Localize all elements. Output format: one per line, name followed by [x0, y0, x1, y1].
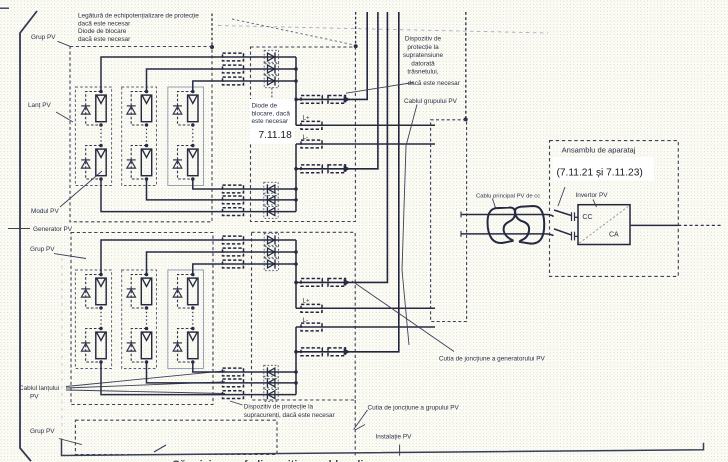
- node bus+ switch group 2: [294, 281, 298, 285]
- blocking diode string 2.2 negative: [264, 376, 278, 389]
- svg-text:Dispozitiv de protecție la: Dispozitiv de protecție la: [244, 404, 314, 411]
- PV module 1.1a with bypass diode: [81, 90, 106, 127]
- array junction box 2 (dashed): [252, 232, 356, 400]
- white patch behind reference: [553, 157, 654, 181]
- series link dotted 1.1: [100, 125, 102, 146]
- PV module 1.2b with bypass diode: [127, 144, 152, 181]
- dc main wire +: [461, 215, 554, 217]
- leader Grup PV second: [54, 254, 86, 259]
- wire string 2.2 positive: [147, 252, 297, 275]
- wire switch-disconnector + group 1: [296, 12, 367, 99]
- PV module 1.3a with bypass diode: [173, 90, 198, 127]
- svg-text:Dispozitiv de: Dispozitiv de: [405, 36, 442, 43]
- node bus- switch group 2: [294, 350, 298, 354]
- svg-text:Legătură de echipotențializare: Legătură de echipotențializare de protec…: [78, 13, 199, 20]
- array junction box 1 (dashed): [251, 47, 356, 222]
- svg-text:Invertor PV: Invertor PV: [576, 192, 609, 199]
- leader surge note: [346, 83, 413, 94]
- PV module 2.3b with bypass diode: [173, 327, 198, 364]
- svg-text:7.11.18: 7.11.18: [259, 130, 293, 141]
- wire switch-disconnector - group 1: [296, 12, 378, 169]
- wire string 1.2 positive: [147, 69, 297, 92]
- blocking diode string 1.1 negative: [264, 205, 278, 218]
- switch terminal bars -: [571, 232, 573, 241]
- wire string 1.1 positive: [101, 57, 296, 92]
- leader Cablul lantului PV prong 1: [66, 371, 225, 387]
- fuse L+ group 1: [301, 121, 322, 129]
- leader Lant PV: [56, 112, 73, 122]
- bonding dashed diagonal to array junction box corner: [232, 19, 352, 45]
- fuse L- group 1: [301, 140, 322, 148]
- leader Cablul grupului PV: [402, 105, 417, 346]
- string box 2.1 (dashed): [75, 270, 111, 369]
- string box 1.3 (solid light): [168, 87, 204, 186]
- blocking diode string 2.2 positive: [264, 245, 278, 258]
- PV module 1.2a with bypass diode: [127, 90, 152, 127]
- wire string 1.1 negative: [101, 179, 296, 212]
- svg-text:Cablul grupului PV: Cablul grupului PV: [404, 98, 458, 105]
- series link dotted 2.1: [100, 308, 102, 329]
- fuse string 2.2 positive: [223, 248, 244, 256]
- leader Cutia generatorului: [352, 281, 454, 352]
- series link dotted 1.3: [192, 125, 194, 146]
- leader Cablul lantului PV prong 3: [66, 390, 225, 394]
- switch blade -: [554, 229, 572, 235]
- PV module 2.3a with bypass diode: [173, 273, 198, 310]
- leader Cutia grupului: [354, 410, 368, 430]
- svg-text:Generator PV: Generator PV: [33, 226, 73, 233]
- positive bus group 2: [295, 240, 297, 308]
- leader hook at box edge: [355, 425, 365, 431]
- stray mark near bottom: [154, 445, 166, 452]
- svg-text:supracurenți, dacă este necesa: supracurenți, dacă este necesar: [244, 412, 336, 419]
- string box 2.3 (solid light): [168, 270, 204, 369]
- fuse string 1.1 positive: [223, 53, 244, 61]
- blocking diode string 2.3 negative: [264, 365, 278, 378]
- dashed tick from diode column to note: [271, 88, 273, 99]
- switch-disconnector fuse + group 1: [301, 96, 350, 104]
- Grup PV box 2 (dashed): [71, 233, 213, 405]
- leader for switches from Ansamblu: [558, 187, 565, 206]
- node bus- switch group 1: [294, 167, 298, 171]
- node bus+ row2 group 1: [294, 67, 298, 71]
- bonding dashed drop to generator junction box corner: [465, 12, 467, 119]
- blocking diode string 1.1 positive: [264, 50, 278, 63]
- svg-text:Cutia de joncțiune a generator: Cutia de joncțiune a generatorului PV: [439, 355, 546, 362]
- fuse string 2.2 negative: [223, 379, 244, 387]
- bottom cropped caption smudge: [172, 459, 402, 462]
- leader Invertor PV: [593, 200, 597, 208]
- fuse L- group 2: [301, 323, 322, 331]
- wire L+ group 2: [296, 307, 435, 309]
- svg-text:Cutia de joncțiune a grupului: Cutia de joncțiune a grupului PV: [368, 404, 460, 411]
- PV module 2.1b with bypass diode: [81, 327, 106, 364]
- series link dotted 2.2: [146, 308, 148, 329]
- svg-text:Modul PV: Modul PV: [31, 208, 59, 215]
- fuse string 1.2 negative: [223, 196, 244, 204]
- svg-text:CC: CC: [582, 214, 592, 221]
- leader Cablul lantului PV prong 2: [66, 382, 225, 388]
- string box 1.1 (dashed): [75, 87, 111, 186]
- wire string 2.1 negative: [101, 362, 296, 395]
- tick Generator PV: [8, 228, 30, 230]
- PV module 2.2b with bypass diode: [127, 327, 152, 364]
- leader Grup PV: [58, 41, 71, 46]
- terminal tick dc -: [460, 231, 462, 237]
- switch-disconnector fuse - group 1: [301, 165, 350, 173]
- svg-text:dacă este necesar: dacă este necesar: [78, 20, 131, 27]
- wire string 2.1 positive: [101, 240, 296, 275]
- positive bus group 1: [295, 57, 297, 125]
- blocking diode string 1.2 positive: [264, 62, 278, 75]
- top-left corner tick: [0, 7, 9, 9]
- switch blade +: [554, 210, 572, 216]
- wire into inverter -: [575, 235, 579, 237]
- PV module 1.3b with bypass diode: [173, 144, 198, 181]
- node bus- row1 group 1: [294, 187, 298, 191]
- generator junction box (dashed): [431, 120, 467, 322]
- blocking diode string 1.2 negative: [264, 193, 278, 206]
- leader cablu principal: [492, 199, 495, 208]
- fuse string 1.3 positive: [223, 77, 244, 85]
- svg-text:protecție la: protecție la: [407, 44, 439, 51]
- installation boundary top (faint dashed): [218, 26, 548, 34]
- svg-text:Grup PV: Grup PV: [31, 34, 56, 41]
- switch-disconnector fuse - group 2: [301, 348, 350, 356]
- fuse string 1.3 negative: [223, 185, 244, 193]
- blocking diode string 2.1 positive: [264, 233, 278, 246]
- PV module 2.2a with bypass diode: [127, 273, 152, 310]
- PV module 1.1b with bypass diode: [81, 144, 106, 181]
- svg-text:Grup PV: Grup PV: [30, 428, 55, 435]
- wire switch-disconnector - group 2: [296, 12, 399, 352]
- junction box 2 right edge extension to bottom: [354, 400, 356, 456]
- svg-text:datorată: datorată: [411, 60, 435, 67]
- node bus+ switch group 1: [294, 98, 298, 102]
- fuse string 1.1 negative: [223, 208, 244, 216]
- svg-text:este necesar: este necesar: [252, 118, 289, 125]
- ac output wire: [630, 224, 678, 226]
- wire string 2.3 negative: [193, 362, 296, 372]
- string box 2.2 (dashed): [122, 270, 157, 369]
- wire L- group 2: [296, 326, 435, 328]
- bonding node on Grup PV box corner: [210, 45, 214, 49]
- fuse string 2.1 negative: [223, 391, 244, 399]
- leader Grup PV bottom: [59, 439, 82, 445]
- wire string 2.3 positive: [193, 264, 296, 275]
- svg-text:trăsnetului,: trăsnetului,: [407, 69, 438, 76]
- svg-text:dacă este necesar: dacă este necesar: [408, 80, 461, 87]
- node bus+ row3 group 1: [294, 79, 298, 83]
- svg-text:(7.11.21 și 7.11.23): (7.11.21 și 7.11.23): [557, 168, 643, 179]
- wire switch-disconnector + group 2: [296, 12, 387, 282]
- svg-text:Cablu principal PV de cc: Cablu principal PV de cc: [476, 194, 540, 200]
- blocking diode string 2.3 positive: [264, 257, 278, 270]
- svg-text:supratensiune: supratensiune: [403, 52, 444, 59]
- left page border: [20, 11, 37, 461]
- bonding node on array junction box corner: [354, 44, 358, 48]
- fuse string 1.2 positive: [223, 65, 244, 73]
- fuse string 2.3 negative: [223, 368, 244, 376]
- negative bus group 2: [295, 327, 297, 395]
- fuse string 2.1 positive: [223, 236, 244, 244]
- bonding dashed drop to array junction box corner: [355, 12, 357, 46]
- bonding node on generator junction box corner: [464, 117, 468, 121]
- svg-text:L-: L-: [303, 317, 309, 324]
- node bus+ row2 group 2: [294, 250, 298, 254]
- wire L- group 1: [296, 143, 435, 145]
- svg-text:Grup PV: Grup PV: [30, 246, 55, 253]
- svg-text:Diode de blocare: Diode de blocare: [78, 28, 127, 35]
- Grup PV box bottom-left empty (dashed): [75, 420, 277, 454]
- svg-text:Ansamblu de aparataj: Ansamblu de aparataj: [562, 146, 636, 155]
- installation boundary left (faint dashed): [61, 258, 63, 438]
- string box 1.2 (dashed): [122, 87, 157, 186]
- blocking diode string 2.1 negative: [264, 388, 278, 401]
- node bus- row2 group 2: [294, 381, 298, 385]
- svg-text:CA: CA: [609, 232, 619, 239]
- node bus- row1 group 2: [294, 370, 298, 374]
- svg-text:L+: L+: [303, 298, 310, 305]
- svg-text:Cablul lanțului: Cablul lanțului: [19, 385, 59, 392]
- leader Modul PV: [60, 171, 102, 207]
- series link dotted 1.2: [146, 125, 148, 146]
- blocking diode string 1.3 positive: [264, 74, 278, 87]
- svg-text:PV: PV: [30, 394, 39, 401]
- fuse string 2.3 positive: [223, 260, 244, 268]
- svg-text:Instalație PV: Instalație PV: [376, 434, 413, 441]
- node bus+ row3 group 2: [294, 262, 298, 266]
- wire string 1.2 negative: [147, 179, 297, 200]
- inverter diagonal: [580, 206, 629, 243]
- wire string 1.3 positive: [193, 81, 296, 92]
- node bus- row2 group 1: [294, 198, 298, 202]
- terminal tick dc +: [460, 212, 462, 218]
- wire into inverter +: [575, 216, 579, 218]
- leader supracurenti: [230, 401, 243, 405]
- series link dotted 2.3: [192, 308, 194, 329]
- svg-text:blocare, dacă: blocare, dacă: [252, 110, 291, 117]
- white patch behind blocking-diode note: [250, 99, 295, 144]
- svg-text:L-: L-: [303, 134, 309, 141]
- dc main wire -: [461, 234, 554, 236]
- cable knot left loop: [488, 207, 516, 243]
- fuse L+ group 2: [301, 304, 322, 312]
- PV module 2.1a with bypass diode: [81, 273, 106, 310]
- wire string 2.2 negative: [147, 362, 297, 383]
- ac output wire dashed continuation: [678, 224, 721, 226]
- bottom border of installation: [62, 439, 704, 456]
- svg-text:Lanț PV: Lanț PV: [28, 102, 51, 109]
- svg-text:L+: L+: [303, 115, 310, 122]
- inverter box U1: [578, 205, 630, 245]
- blocking diode string 1.3 negative: [264, 182, 278, 195]
- tick Instalatie PV: [399, 445, 401, 456]
- switch-disconnector fuse + group 2: [301, 279, 350, 287]
- Grup PV box 1 (dashed): [70, 47, 212, 222]
- svg-text:dacă este necesar: dacă este necesar: [78, 36, 131, 43]
- negative bus group 1: [295, 144, 297, 212]
- svg-text:Diode de: Diode de: [252, 103, 278, 110]
- bonding dashed drop to Grup PV box corner: [211, 14, 213, 47]
- wire L+ group 1: [296, 124, 435, 126]
- wire string 1.3 negative: [193, 179, 296, 189]
- switch terminal bars +: [571, 212, 573, 221]
- Ansamblu de aparataj box (dashed): [550, 141, 679, 277]
- cable knot right loop: [515, 206, 544, 244]
